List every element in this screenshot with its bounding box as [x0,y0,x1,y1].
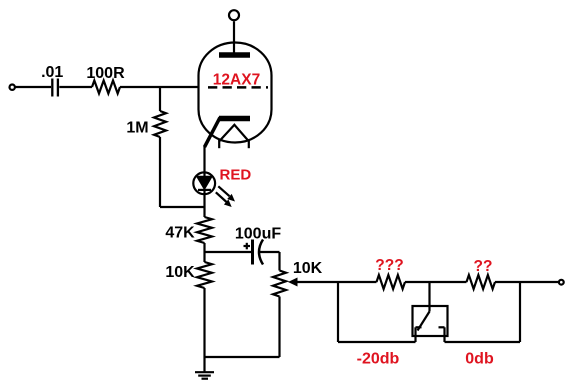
svg-text:100uF: 100uF [235,226,281,243]
svg-text:???: ??? [375,257,403,274]
svg-text:1M: 1M [126,120,148,137]
svg-text:47K: 47K [165,225,195,242]
svg-text:12AX7: 12AX7 [213,72,260,89]
svg-text:10K: 10K [165,264,195,281]
svg-text:.01: .01 [41,64,63,81]
svg-text:0db: 0db [465,351,494,368]
svg-text:RED: RED [220,167,252,184]
svg-text:-20db: -20db [357,351,400,368]
svg-text:??: ?? [474,258,493,275]
svg-text:100R: 100R [86,65,125,82]
svg-text:10K: 10K [293,260,323,277]
